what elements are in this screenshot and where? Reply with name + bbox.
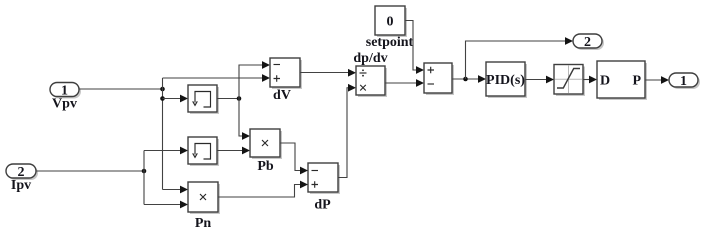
wire dV output to divide input <box>300 72 350 74</box>
memory block V delay <box>188 85 219 114</box>
node B junction Vpv to memory1 <box>160 96 165 101</box>
wire setpoint to sum plus input <box>405 21 418 71</box>
wire Vpv to Pn top input <box>163 189 183 191</box>
svg-text:1: 1 <box>680 74 687 89</box>
product block Pb <box>250 129 282 159</box>
sum block setpoint minus dpdv <box>424 63 454 95</box>
constant block setpoint 0 <box>375 6 407 37</box>
wire delayed V up to dV minus input <box>239 65 264 99</box>
svg-text:Pb: Pb <box>257 159 274 174</box>
node A junction on Vpv line <box>160 87 165 92</box>
outport 2 <box>573 34 604 50</box>
outport 1 <box>669 73 700 89</box>
wire memory2 output to Pb bottom input <box>217 150 244 152</box>
wire divide output to sum minus input <box>385 82 418 84</box>
divide block dp/dv <box>356 66 387 97</box>
svg-text:Ipv: Ipv <box>11 178 31 193</box>
svg-text:Vpv: Vpv <box>52 97 77 112</box>
wire vertical Ipv bus x=144 <box>143 151 145 205</box>
wire sum output to PID <box>452 78 480 80</box>
wire Pn output to dP plus input <box>218 185 302 198</box>
inport 1 Vpv <box>50 83 81 99</box>
svg-text:Pn: Pn <box>195 216 212 231</box>
svg-text:dV: dV <box>273 88 291 103</box>
wire Vpv to memory1 input <box>163 98 183 100</box>
svg-text:D: D <box>600 74 610 89</box>
wire Ipv to node C <box>36 170 144 172</box>
inport 2 Ipv <box>6 164 38 180</box>
sum block dP <box>308 163 340 194</box>
svg-text:0: 0 <box>387 15 394 30</box>
wire PID output to saturation <box>525 79 548 81</box>
product block Pn <box>188 182 220 214</box>
PID controller block U1 <box>486 62 527 98</box>
wire Vpv to node A <box>79 88 163 90</box>
svg-text:2: 2 <box>584 35 591 50</box>
wire memory1 output to node D <box>217 98 239 100</box>
node E junction to outport 2 <box>463 77 468 82</box>
wire Ipv to memory2 input <box>144 150 182 152</box>
wire dP output up to divide times input <box>338 88 350 178</box>
saturation block <box>554 65 585 97</box>
sum block dV <box>270 58 302 89</box>
wire Ipv to Pn bottom input <box>144 204 182 206</box>
subsystem block D to P <box>597 61 647 100</box>
wire delayed V down to Pb top input <box>239 99 244 137</box>
wire subsystem output to outport 1 <box>645 79 663 81</box>
wire node E up to outport 2 <box>466 41 568 79</box>
wire saturation output to subsystem <box>583 79 591 81</box>
svg-text:dp/dv: dp/dv <box>353 51 387 66</box>
wire vertical Vpv bus x=162.5 <box>162 78 164 190</box>
node D junction delayed V <box>237 96 242 101</box>
svg-text:setpoint: setpoint <box>366 35 414 50</box>
memory block I delay <box>188 137 219 166</box>
svg-text:PID(s): PID(s) <box>486 73 525 88</box>
svg-text:P: P <box>632 74 641 89</box>
node C junction on Ipv line <box>142 169 147 174</box>
wire Vpv direct to dV plus input <box>163 77 265 79</box>
svg-text:dP: dP <box>314 198 331 213</box>
wire Pb output to dP minus input <box>280 143 302 171</box>
